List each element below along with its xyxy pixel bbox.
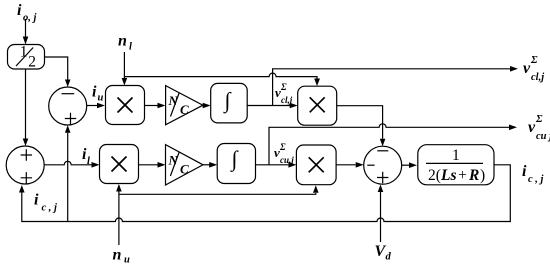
wire: M3 right then down into summing junction S3 top — [337, 106, 386, 147]
wire: v_cu riser to right output v_cu,j (hops over S3 top feed) — [269, 124, 517, 165]
svg-text:+: + — [458, 167, 467, 184]
wire: 1/2 block right branch to summing junction S1 top — [45, 57, 71, 87]
svg-text:u: u — [98, 93, 104, 104]
svg-text:c , j: c , j — [528, 174, 544, 185]
summing junction S1 (upper arm) — [49, 87, 87, 125]
summing junction S2 (lower-left) — [6, 146, 44, 184]
node V_d input label — [375, 243, 392, 263]
gain block 1/2 — [8, 44, 45, 71]
wire: M1 to gain triangle G1 — [145, 103, 166, 109]
svg-text:Σ: Σ — [530, 55, 538, 66]
node i_l label — [82, 146, 90, 167]
multiplier M1 (upper arm, i_u x n_l) — [106, 86, 145, 125]
wire: V_d up into S3 bottom (passes under feedback hop) — [378, 185, 384, 243]
svg-text:i: i — [92, 84, 97, 101]
svg-text:i: i — [17, 2, 22, 19]
wire: n_u branch right then up into M4 bottom — [119, 185, 319, 194]
svg-text:R: R — [468, 167, 479, 184]
node v_cl,j sum label (inline) — [275, 82, 293, 105]
svg-text:cl,j: cl,j — [531, 72, 544, 83]
wire: n_l down into M1 — [122, 52, 128, 86]
svg-text:Ls: Ls — [440, 167, 457, 184]
svg-text:i: i — [522, 163, 527, 180]
svg-text:2: 2 — [28, 53, 36, 70]
svg-text:Σ: Σ — [535, 114, 543, 125]
svg-text:i: i — [34, 192, 39, 209]
svg-text:): ) — [480, 167, 485, 184]
wire: 1/2 block bottom to summing junction S2 top — [23, 69, 29, 146]
wire: n_u up into M2 bottom (passes under feedback hop) — [116, 184, 122, 245]
svg-text:Σ: Σ — [280, 82, 287, 92]
multiplier M4 (lower arm, v_cu x n_u) — [296, 145, 336, 185]
svg-text:cl,j: cl,j — [281, 95, 293, 105]
wire: S3 to transfer block TF1 — [402, 162, 417, 168]
node i_u label — [92, 84, 104, 104]
svg-text:2(: 2( — [428, 167, 441, 184]
svg-text:v: v — [528, 119, 536, 136]
node n_u input label — [113, 247, 131, 266]
wire: M2 to gain triangle G2 — [139, 162, 166, 168]
svg-text:C: C — [180, 102, 189, 117]
wire: S2 to multiplier M2 (hops over feedback riser) — [44, 161, 99, 167]
svg-text:C: C — [180, 162, 189, 177]
svg-text:cu,j: cu,j — [280, 155, 294, 165]
multiplier M2 (lower arm, i_l x n_u) — [100, 145, 139, 184]
integrator I1 (upper arm) — [211, 83, 248, 123]
gain triangle G1 N/C (upper arm) — [166, 86, 203, 125]
wire: S1 to multiplier M1 — [87, 103, 105, 109]
svg-text:l: l — [129, 42, 132, 53]
svg-text:d: d — [386, 252, 392, 263]
wire: I2 to multiplier M4 with v_cu,j node — [256, 162, 297, 168]
node v_cu,j sum label (inline) — [274, 142, 294, 165]
node i_c,j feedback label (left) — [34, 192, 57, 214]
wire: G1 to integrator I1 — [203, 103, 211, 109]
wire: I1 to multiplier M3 with v_cl,j node — [247, 103, 298, 109]
node v_cl,j output label — [523, 55, 544, 83]
svg-text:n: n — [113, 247, 122, 264]
svg-text:u: u — [124, 255, 130, 266]
summing junction S3 (output) — [364, 146, 402, 184]
integrator I2 (lower arm) — [217, 144, 255, 184]
wire: v_cl riser to top-right output v_cl,j — [273, 66, 518, 106]
node n_l input label — [118, 32, 132, 52]
wire: M4 to summing junction S3 left — [336, 162, 364, 168]
svg-text:n: n — [118, 32, 127, 49]
wire: i_o,j down into 1/2 block — [23, 19, 29, 45]
transfer block TF1: 1/(2(Ls+R)) — [418, 145, 494, 185]
multiplier M3 (upper arm, v_cl x n_l) — [298, 86, 337, 125]
node i_c,j output label (right) — [522, 163, 544, 185]
wire: feedback riser up into S1 bottom — [65, 125, 71, 221]
svg-text:1: 1 — [452, 147, 460, 164]
svg-text:Σ: Σ — [279, 142, 286, 152]
node v_cu,j output label — [528, 114, 550, 142]
svg-text:c , j: c , j — [42, 203, 58, 214]
gain triangle G2 N/C (lower arm) — [166, 145, 204, 185]
node i_o,j input label — [17, 2, 37, 24]
wire: TF1 output feedback down and left along bottom (hops over V_d and n_u), up into S2 bottom — [19, 165, 510, 222]
svg-text:cu j: cu j — [536, 131, 550, 142]
wire: G2 to integrator I2 — [203, 162, 217, 168]
wire: n_l branch right to multiplier M3 top (hops over v_cl riser) — [124, 73, 320, 86]
svg-text:v: v — [523, 60, 531, 77]
